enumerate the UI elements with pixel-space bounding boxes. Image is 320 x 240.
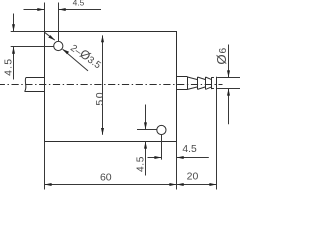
dimension line: hole2 4.5 horizontal right segment [177, 157, 209, 159]
extension line: hole 1 vertical above [58, 3, 60, 42]
arrowhead: 60 pointing left [45, 183, 52, 186]
svg-text:60: 60 [100, 172, 112, 184]
extension line: hole 2 below [161, 135, 163, 160]
leader line: 2-diam-3.5 upper segment [45, 32, 55, 40]
svg-text:4.5: 4.5 [182, 144, 197, 155]
svg-text:Ø6: Ø6 [214, 47, 229, 65]
svg-text:4.5: 4.5 [73, 0, 85, 8]
hole 2 [157, 125, 166, 134]
arrowhead: 20 pointing right [209, 183, 216, 186]
barb tip cylinder [212, 77, 214, 89]
dimension line: diameter 6 upper segment [228, 45, 230, 78]
arrowhead: hole2 horizontal 4.5 pointing left [177, 156, 184, 159]
barb 1 [188, 77, 198, 89]
arrowhead: hole2 4.5 pointing down [144, 122, 147, 129]
barb tip end face [216, 77, 218, 90]
extension line: top edge extended left [11, 31, 45, 33]
arrowhead: diam 6 pointing up [227, 89, 230, 96]
dimension line: hole2 4.5 lower segment [145, 142, 147, 176]
extension line: left edge extended below [44, 142, 46, 190]
dimension line: 50 vertical [102, 35, 104, 134]
svg-text:4.5: 4.5 [3, 58, 15, 76]
svg-text:2–Ø3.5: 2–Ø3.5 [68, 40, 105, 71]
leader line: 2-diam-3.5 lower segment [63, 49, 88, 71]
arrowhead: top 4.5 pointing left [59, 8, 66, 11]
arrowhead: 50 pointing down [101, 128, 104, 135]
extension line: hole 2 center to left [137, 129, 157, 131]
arrowhead: 60 pointing right [169, 183, 176, 186]
arrowhead: top 4.5 pointing right [37, 8, 44, 11]
arrowhead: 50 pointing up [101, 35, 104, 42]
extension line: left edge extended above [44, 3, 46, 32]
arrowhead: hole2 4.5 pointing up [144, 142, 147, 149]
left stub port [25, 78, 45, 92]
arrowhead: left 4.5 pointing down [12, 24, 15, 31]
barb 3 [206, 77, 212, 89]
dimension line: top 4.5 left segment [24, 9, 45, 11]
dimension line: hole2 4.5 horizontal left segment [148, 157, 162, 159]
dimension line: top 4.5 right segment [59, 9, 101, 11]
dimension line: hole2 4.5 upper segment [145, 105, 147, 130]
arrowhead: leader at hole1 upper-left pointing down-right [48, 35, 55, 40]
dimension line: diameter 6 lower segment [228, 89, 230, 125]
extension line: shaft end extended below [216, 90, 218, 190]
svg-text:20: 20 [187, 170, 199, 182]
arrowhead: left 4.5 pointing up [12, 47, 15, 54]
arrowhead: 20 pointing left [177, 183, 184, 186]
extension line: shaft top diameter [217, 77, 240, 79]
extension line: hole 1 center to left [11, 46, 54, 48]
dimension line: 60 and 20 bottom [45, 184, 217, 186]
svg-text:4.5: 4.5 [136, 156, 147, 172]
arrowhead: diam 6 pointing down [227, 70, 230, 77]
arrowhead: hole2 horizontal 4.5 pointing right [154, 156, 161, 159]
extension line: shaft bottom diameter [217, 88, 240, 90]
barb fitting neck [177, 77, 188, 90]
hole 1 [54, 41, 63, 50]
centerline [0, 84, 223, 86]
extension line: right edge extended below [176, 142, 178, 190]
arrowhead: leader at hole1 lower-right pointing up-left [63, 49, 70, 54]
dimension line: left 4.5 upper segment [13, 14, 15, 32]
svg-text:50: 50 [94, 91, 106, 106]
dimension line: left 4.5 lower segment [13, 47, 15, 80]
part body outline [45, 32, 177, 142]
barb 2 [198, 77, 206, 89]
